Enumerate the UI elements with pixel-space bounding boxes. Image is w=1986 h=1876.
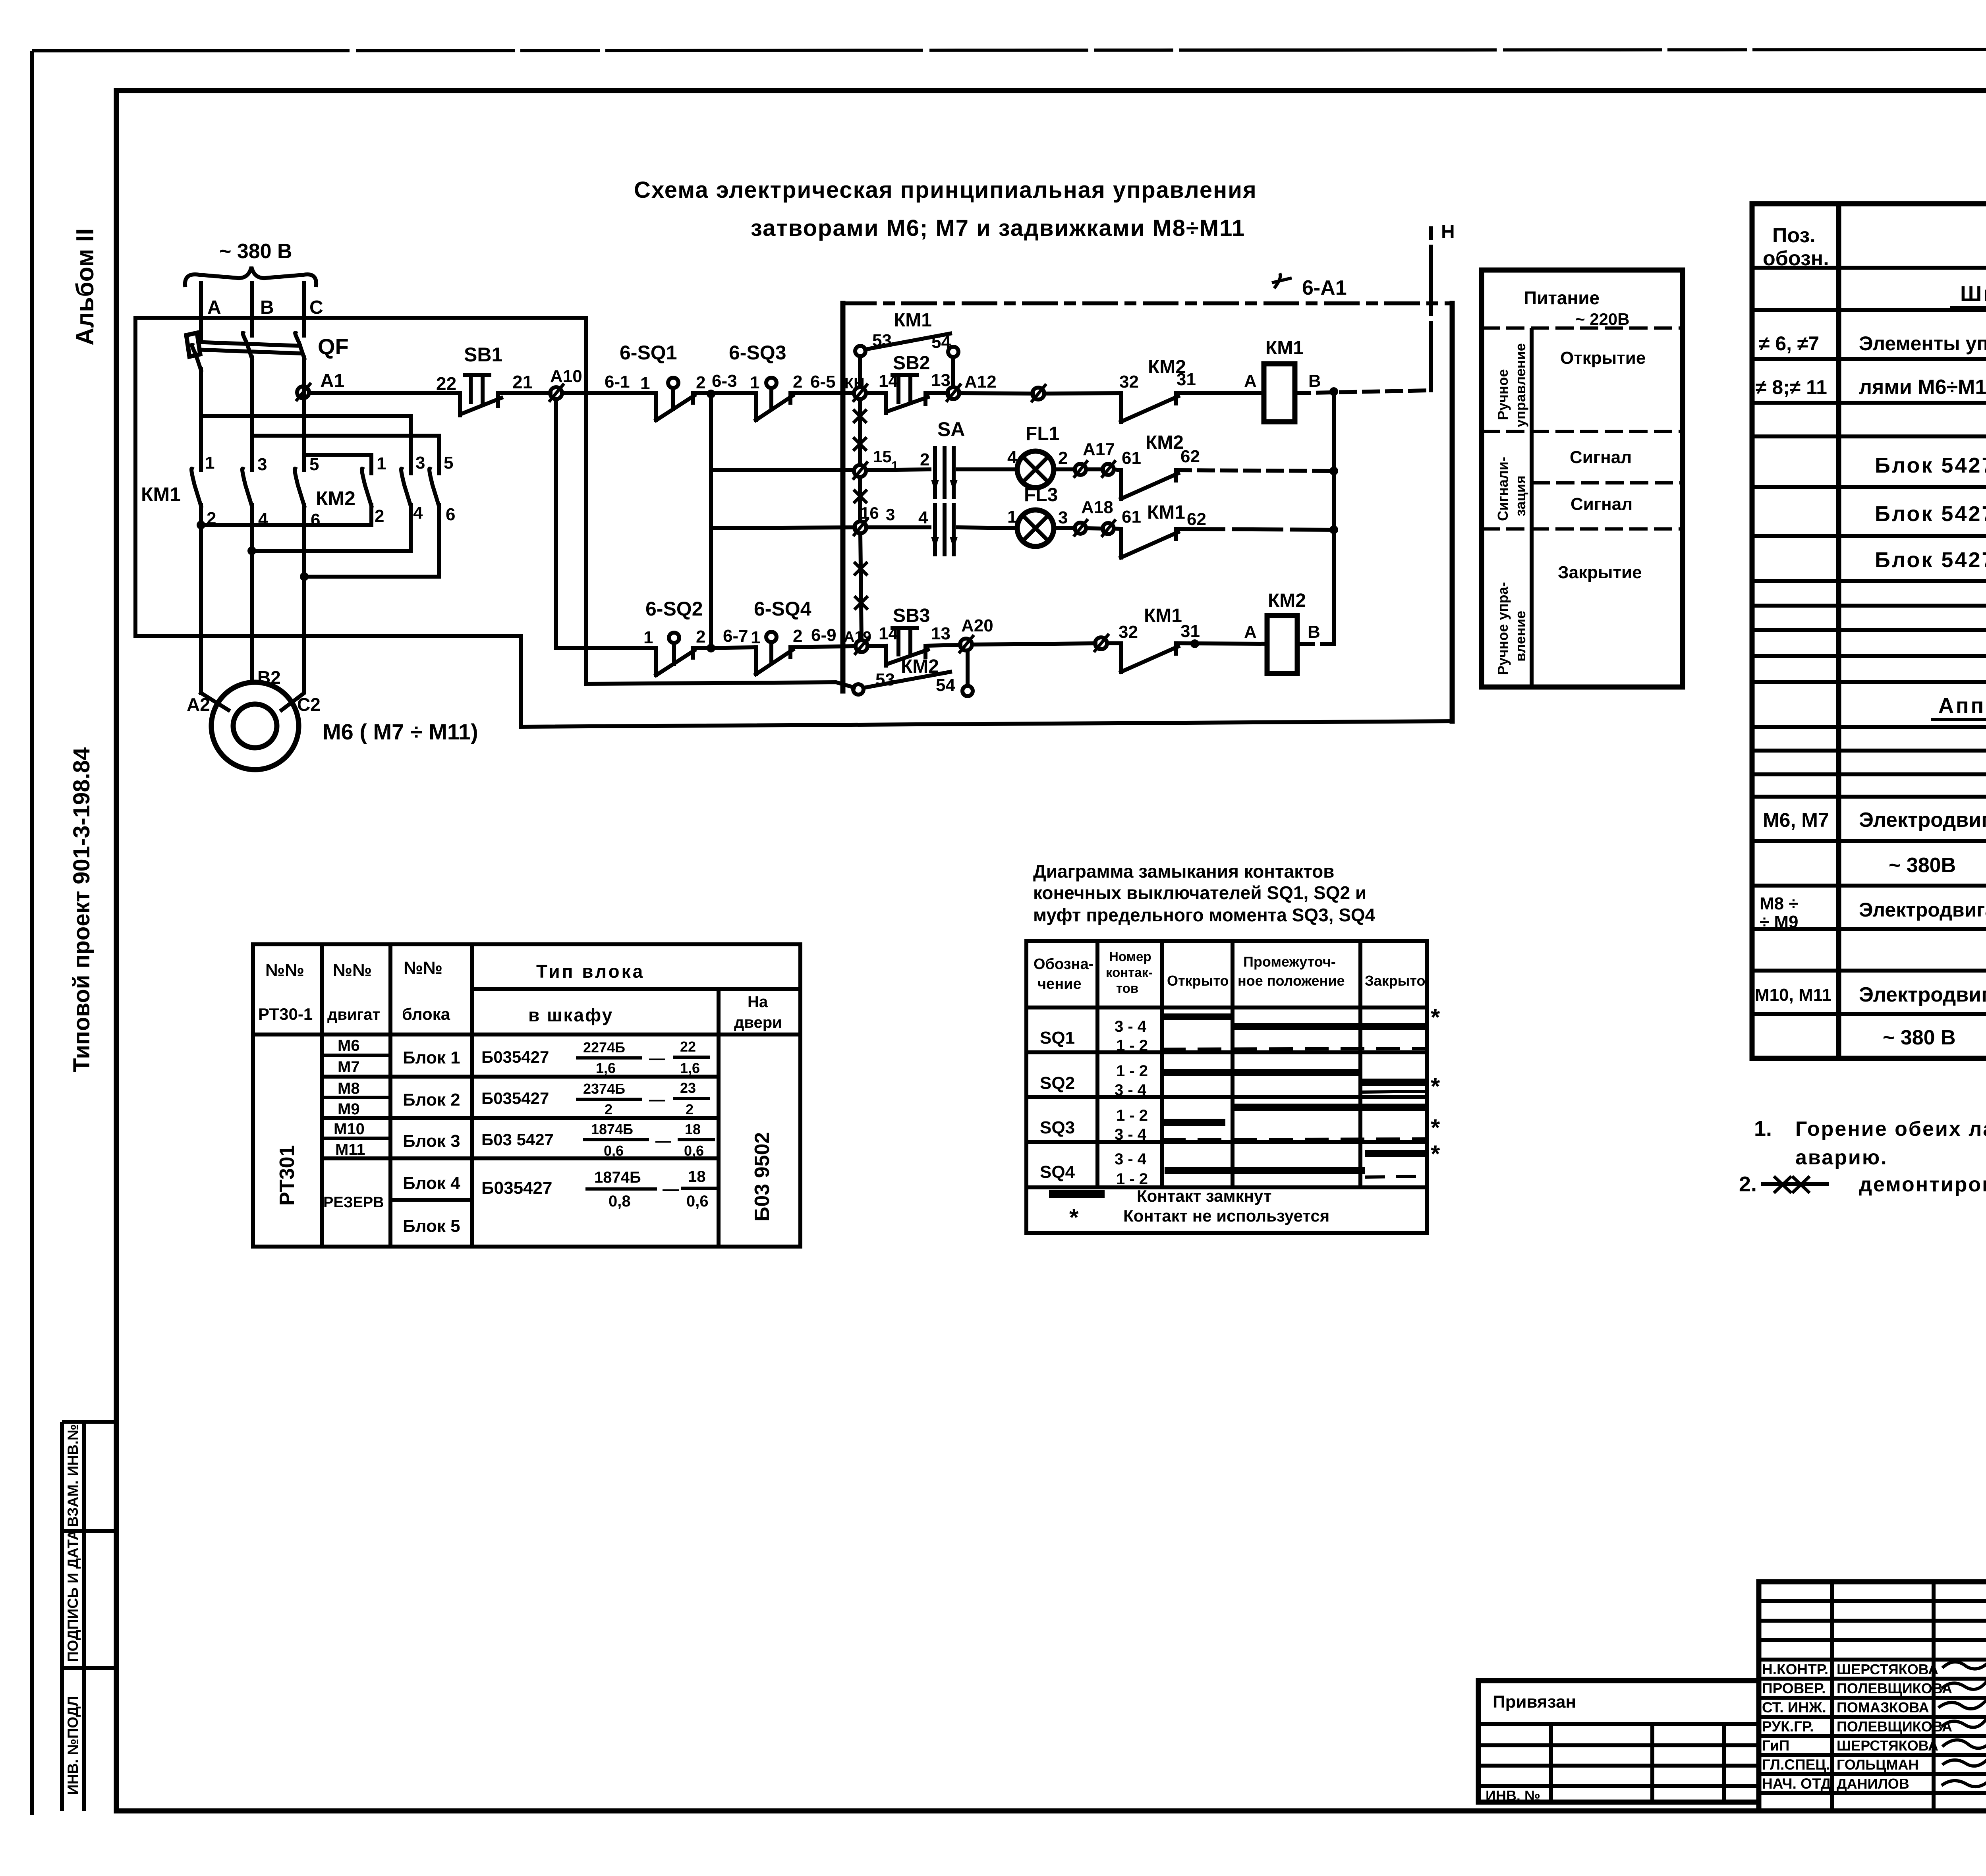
svg-text:М6, М7: М6, М7: [1763, 809, 1829, 831]
junction with branch wire: [707, 644, 715, 652]
left grid verticals: [1832, 1582, 1986, 1811]
svg-text:ШЕРСТЯКОВА: ШЕРСТЯКОВА: [1837, 1661, 1938, 1677]
svg-text:двигат: двигат: [327, 1006, 380, 1023]
svg-text:SQ4: SQ4: [1040, 1162, 1075, 1182]
svg-text:Электродвигатель АОЛС2-11-4: Электродвигатель АОЛС2-11-4 ~ 380В: [1859, 899, 1986, 921]
svg-text:ГОЛЬЦМАН: ГОЛЬЦМАН: [1837, 1756, 1918, 1773]
svg-text:Тип влока: Тип влока: [536, 961, 645, 982]
svg-text:23: 23: [680, 1080, 696, 1096]
svg-text:Сигнал: Сигнал: [1571, 494, 1632, 514]
svg-text:15: 15: [873, 447, 892, 466]
svg-text:Шкаф РТ30-81: Шкаф РТ30-81: [1960, 282, 1986, 306]
wire to SB3: [867, 646, 886, 646]
signatures: [1942, 1657, 1986, 1669]
svg-text:1: 1: [205, 453, 214, 473]
svg-text:1 - 2: 1 - 2: [1116, 1107, 1148, 1124]
svg-text:3: 3: [257, 455, 267, 474]
svg-text:А: А: [1244, 622, 1257, 642]
svg-text:Номер: Номер: [1109, 949, 1151, 964]
svg-text:6-7: 6-7: [723, 626, 748, 646]
svg-text:Блок 5427: Блок 5427: [1875, 454, 1986, 477]
crossover wire B to KM2-5: [252, 436, 439, 473]
svg-text:62: 62: [1187, 510, 1206, 529]
svg-text:~ 220В: ~ 220В: [1575, 310, 1630, 328]
svg-text:А: А: [1244, 371, 1257, 391]
svg-text:FL3: FL3: [1024, 484, 1058, 506]
limit switch SQ1: [656, 393, 694, 420]
svg-text:Б03 9502: Б03 9502: [751, 1132, 774, 1222]
svg-text:В: В: [1308, 622, 1320, 642]
svg-text:ДАНИЛОВ: ДАНИЛОВ: [1837, 1776, 1909, 1792]
svg-text:2: 2: [793, 372, 802, 392]
wire to coil KM2: [1176, 643, 1267, 644]
QF pole A: [192, 318, 201, 470]
svg-text:Блок 3: Блок 3: [403, 1131, 460, 1151]
svg-text:тов: тов: [1116, 981, 1138, 996]
phase C wire: [302, 283, 306, 336]
svg-text:обозн.: обозн.: [1763, 247, 1829, 270]
svg-text:÷ М9: ÷ М9: [1760, 912, 1799, 932]
svg-text:КМ2: КМ2: [316, 487, 355, 510]
row2 branch wire: [711, 527, 855, 528]
panel terminal row2: [854, 521, 866, 533]
svg-text:Блок 1: Блок 1: [403, 1048, 460, 1067]
svg-text:М6 ( М7 ÷ М11): М6 ( М7 ÷ М11): [323, 719, 478, 744]
wire to SA row1: [866, 469, 929, 470]
svg-text:0,6: 0,6: [604, 1143, 624, 1159]
wire to coil KM1: [1176, 391, 1264, 395]
rail wire to panel edge: [790, 391, 854, 395]
svg-text:*: *: [1431, 1004, 1440, 1031]
svg-text:ИНВ. №ПОДЛ: ИНВ. №ПОДЛ: [65, 1696, 81, 1795]
svg-text:~ 380 В: ~ 380 В: [219, 240, 292, 263]
phase A wire: [199, 283, 203, 336]
svg-text:1: 1: [643, 628, 653, 647]
svg-text:2: 2: [793, 626, 802, 646]
svg-text:2: 2: [1058, 448, 1068, 468]
svg-text:16: 16: [860, 504, 879, 522]
node A1: [297, 386, 309, 398]
svg-text:С: С: [309, 297, 323, 318]
svg-text:Блок 2: Блок 2: [403, 1090, 460, 1110]
svg-text:управление: управление: [1512, 343, 1528, 427]
svg-text:1,6: 1,6: [680, 1060, 700, 1076]
lower rail from A10: [556, 399, 656, 648]
svg-text:Поз.: Поз.: [1772, 224, 1816, 247]
svg-text:Блок 5427: Блок 5427: [1875, 548, 1986, 572]
coil KM2: [1267, 616, 1297, 674]
junction dot B: [247, 546, 256, 555]
svg-text:1 - 2: 1 - 2: [1116, 1037, 1148, 1054]
svg-text:чение: чение: [1037, 976, 1082, 992]
svg-text:двери: двери: [734, 1014, 782, 1031]
svg-text:6-SQ2: 6-SQ2: [645, 598, 703, 620]
rail wire A10 to SQ1: [562, 391, 656, 395]
rail wire to SB2: [866, 391, 886, 395]
wire coil KM2 to collector: [1297, 642, 1334, 646]
svg-text:Сигнал: Сигнал: [1570, 448, 1632, 467]
svg-text:В: В: [1308, 371, 1321, 391]
svg-text:ИНВ. №: ИНВ. №: [1486, 1787, 1540, 1804]
svg-text:М8: М8: [338, 1080, 360, 1097]
svg-text:*: *: [1431, 1141, 1440, 1167]
svg-text:6-SQ4: 6-SQ4: [754, 598, 811, 620]
wire SA to FL3: [958, 527, 1018, 528]
svg-text:4: 4: [918, 508, 928, 527]
phase B wire: [250, 283, 254, 336]
svg-text:ПОДПИСЬ И ДАТА: ПОДПИСЬ И ДАТА: [65, 1530, 81, 1662]
block table grid: [253, 944, 800, 1247]
svg-text:~ 380 В: ~ 380 В: [1883, 1026, 1956, 1049]
collector wire right: [1332, 392, 1336, 644]
svg-text:М7: М7: [338, 1058, 360, 1076]
svg-text:32: 32: [1119, 372, 1139, 392]
svg-text:—: —: [663, 1179, 679, 1198]
wire SA to FL1: [958, 467, 1018, 471]
svg-text:21: 21: [512, 372, 533, 392]
svg-text:1,6: 1,6: [596, 1060, 616, 1076]
svg-text:Промежуточ-: Промежуточ-: [1243, 953, 1336, 970]
svg-text:0,6: 0,6: [684, 1143, 704, 1159]
left margin strip cells: [62, 1422, 116, 1811]
svg-text:Горение обеих ламп сигнали: Горение обеих ламп сигнализирует: [1795, 1117, 1986, 1141]
rail wire to panel edge lower: [790, 646, 854, 647]
svg-text:6-SQ1: 6-SQ1: [620, 342, 677, 364]
panel terminal lower rail: [856, 640, 867, 652]
svg-text:13: 13: [931, 371, 950, 390]
rail wire to SQ4: [693, 647, 756, 648]
svg-text:1.: 1.: [1754, 1117, 1772, 1141]
enclosure 6-A1 top edge: [843, 301, 1452, 305]
svg-text:КМ1: КМ1: [141, 483, 181, 506]
svg-text:В2: В2: [257, 667, 281, 688]
svg-text:Схема электрическая принципи: Схема электрическая принципиальная управ…: [634, 177, 1257, 203]
privyazan table: [1478, 1681, 1759, 1802]
svg-text:А12: А12: [964, 372, 997, 392]
svg-text:31: 31: [1177, 370, 1196, 389]
wire KM2-2 to phase A: [201, 523, 371, 527]
svg-text:3 - 4: 3 - 4: [1115, 1081, 1147, 1099]
svg-text:FL1: FL1: [1026, 423, 1059, 444]
svg-text:зация: зация: [1512, 475, 1528, 516]
limit switch SQ3: [756, 393, 793, 420]
svg-text:2: 2: [686, 1101, 694, 1117]
svg-text:3 - 4: 3 - 4: [1115, 1018, 1147, 1035]
crossover wire C to KM2-1: [304, 455, 371, 473]
rail wire from A1 to SB1: [309, 391, 460, 395]
svg-text:61: 61: [1122, 448, 1141, 468]
svg-text:Открытие: Открытие: [1560, 348, 1646, 368]
svg-text:3: 3: [1058, 508, 1068, 527]
svg-text:≠ 8;≠ 11: ≠ 8;≠ 11: [1756, 376, 1827, 398]
svg-text:А1: А1: [320, 371, 344, 392]
svg-text:SB1: SB1: [464, 344, 502, 366]
svg-text:0,6: 0,6: [686, 1193, 709, 1210]
svg-text:1: 1: [377, 454, 386, 473]
motor lead A2: [201, 693, 228, 710]
svg-text:РЕЗЕРВ: РЕЗЕРВ: [323, 1194, 384, 1211]
svg-text:3 - 4: 3 - 4: [1115, 1150, 1147, 1168]
rail wire SB1 to A10: [498, 391, 551, 395]
right feed wire: [586, 318, 854, 687]
svg-text:Блок 4: Блок 4: [403, 1173, 460, 1193]
limit switch SQ4: [756, 647, 793, 674]
svg-text:6-9: 6-9: [811, 625, 837, 645]
svg-text:22: 22: [436, 373, 456, 394]
panel terminal row1: [854, 465, 866, 477]
junction dot C: [300, 572, 309, 581]
svg-text:Привязан: Привязан: [1493, 1692, 1576, 1712]
svg-text:Обозна-: Обозна-: [1034, 956, 1093, 973]
svg-text:Типовой проект 901-3-198.84: Типовой проект 901-3-198.84: [69, 747, 95, 1072]
svg-text:SA: SA: [937, 418, 965, 440]
svg-text:—: —: [655, 1132, 671, 1150]
svg-text:С2: С2: [297, 694, 321, 715]
motor M6: [211, 682, 299, 770]
svg-text:лями М6÷М11: лями М6÷М11: [1859, 376, 1986, 399]
svg-text:№№: №№: [333, 961, 372, 980]
svg-text:М8 ÷: М8 ÷: [1760, 894, 1799, 913]
diagram table grid: [1026, 941, 1427, 1233]
svg-text:Ручное упра-: Ручное упра-: [1495, 582, 1511, 675]
svg-text:А: А: [207, 297, 221, 318]
svg-text:6-5: 6-5: [810, 372, 836, 392]
svg-text:Элементы управления элек: Элементы управления электродвигате-: [1859, 332, 1986, 355]
svg-text:Аппаратура по месту.: Аппаратура по месту.: [1938, 694, 1986, 718]
svg-text:ПОЛЕВЩИКОВА: ПОЛЕВЩИКОВА: [1837, 1718, 1952, 1735]
specification table grid: [1752, 204, 1986, 1058]
svg-text:0,8: 0,8: [609, 1193, 631, 1210]
wire down to lower area: [521, 636, 1452, 727]
svg-text:31: 31: [1180, 621, 1200, 641]
left bypass wire: [135, 318, 521, 636]
svg-text:Электродвигатель ВАОА-071-4: Электродвигатель ВАОА-071-4: [1859, 809, 1986, 832]
svg-text:КМ2: КМ2: [1146, 432, 1184, 453]
enclosure 6-A1 left edge: [840, 303, 846, 691]
svg-text:Н.КОНТР.: Н.КОНТР.: [1762, 1661, 1828, 1677]
control top bus wire: [135, 316, 586, 320]
SQ2 bars: [1163, 1069, 1360, 1076]
wire to KM2 61 contact: [1114, 469, 1121, 470]
svg-text:2: 2: [696, 627, 705, 647]
svg-text:61: 61: [1122, 507, 1141, 527]
power legend box: [1482, 270, 1683, 687]
svg-text:18: 18: [688, 1168, 706, 1185]
svg-text:М10: М10: [334, 1120, 365, 1138]
svg-text:6-SQ3: 6-SQ3: [729, 342, 786, 364]
KM2 pole 5: [429, 469, 439, 577]
svg-text:3: 3: [415, 453, 425, 473]
svg-text:Контакт не используется: Контакт не используется: [1123, 1206, 1329, 1225]
wire KM2-6 to phase C: [304, 575, 439, 579]
crossover wire A to KM2-3: [201, 416, 411, 473]
svg-text:РТ301: РТ301: [276, 1145, 299, 1206]
svg-text:—: —: [649, 1050, 665, 1067]
svg-text:РТ30-1: РТ30-1: [258, 1005, 313, 1023]
wire FL3 to terminals: [1054, 526, 1075, 530]
svg-text:5: 5: [309, 455, 319, 474]
svg-text:А17: А17: [1083, 440, 1115, 459]
svg-text:КМ1: КМ1: [1144, 605, 1182, 626]
svg-text:*: *: [1069, 1204, 1079, 1231]
svg-text:62: 62: [1180, 447, 1200, 466]
svg-text:Питание: Питание: [1524, 288, 1600, 308]
svg-text:М9: М9: [338, 1100, 360, 1118]
svg-text:3 - 4: 3 - 4: [1115, 1126, 1147, 1143]
node A10: [550, 387, 562, 399]
svg-text:ПОЛЕВЩИКОВА: ПОЛЕВЩИКОВА: [1837, 1680, 1952, 1697]
KM2 pole 3: [401, 469, 411, 551]
jumper to dismantle with X marks: [860, 399, 862, 640]
KM1 pole B: [242, 469, 252, 681]
SQ4 bars: [1365, 1150, 1427, 1157]
svg-text:5: 5: [444, 453, 453, 473]
svg-text:В: В: [260, 297, 274, 318]
svg-text:Закрытие: Закрытие: [1558, 563, 1642, 582]
wire KM2-4 to phase B: [252, 549, 411, 553]
svg-text:Сигнали-: Сигнали-: [1495, 457, 1511, 521]
svg-text:А18: А18: [1081, 498, 1113, 517]
svg-text:2: 2: [375, 506, 384, 526]
svg-text:М6: М6: [338, 1037, 360, 1054]
svg-text:—: —: [649, 1091, 665, 1108]
motor lead C2: [282, 578, 304, 710]
svg-text:2: 2: [920, 450, 929, 469]
svg-text:6-3: 6-3: [712, 371, 737, 391]
svg-text:6: 6: [446, 505, 455, 524]
wire N riser: [1429, 228, 1433, 390]
svg-text:РУК.ГР.: РУК.ГР.: [1762, 1718, 1814, 1735]
svg-text:54: 54: [936, 676, 955, 695]
svg-text:1874Б: 1874Б: [591, 1121, 633, 1137]
svg-text:ГиП: ГиП: [1762, 1737, 1789, 1754]
svg-text:1 - 2: 1 - 2: [1116, 1170, 1148, 1188]
svg-text:*: *: [1431, 1114, 1440, 1141]
svg-text:SQ2: SQ2: [1040, 1073, 1075, 1093]
svg-text:2374Б: 2374Б: [583, 1081, 625, 1097]
svg-text:На: На: [748, 993, 768, 1011]
svg-text:2.: 2.: [1739, 1172, 1757, 1196]
svg-text:≠ 6, ≠7: ≠ 6, ≠7: [1759, 332, 1819, 355]
svg-text:ное положение: ное положение: [1238, 973, 1345, 989]
node A20: [925, 645, 960, 646]
row1 branch wire: [709, 394, 713, 648]
svg-text:Б035427: Б035427: [481, 1178, 552, 1198]
rail wire to SQ3: [693, 391, 756, 395]
rail junction dot: [707, 390, 715, 398]
svg-text:затворами М6; М7 и задвижк: затворами М6; М7 и задвижками М8÷М11: [751, 215, 1245, 241]
QF pole B: [243, 318, 252, 470]
svg-text:КМ1: КМ1: [894, 310, 932, 331]
svg-text:1: 1: [640, 374, 650, 393]
svg-text:в шкафу: в шкафу: [528, 1005, 613, 1025]
QF pole C: [295, 318, 304, 470]
svg-text:ПОМАЗКОВА: ПОМАЗКОВА: [1837, 1699, 1929, 1716]
svg-text:Альбом II: Альбом II: [71, 228, 99, 345]
svg-text:М11: М11: [335, 1141, 365, 1158]
enclosure 6-A1 right edge: [1450, 303, 1455, 721]
svg-text:СТ. ИНЖ.: СТ. ИНЖ.: [1762, 1699, 1826, 1716]
svg-text:2274Б: 2274Б: [583, 1039, 625, 1056]
svg-text:6-1: 6-1: [605, 372, 630, 392]
svg-text:ПРОВЕР.: ПРОВЕР.: [1762, 1680, 1826, 1697]
left grid horizontals: [1759, 1601, 1986, 1793]
svg-text:ГЛ.СПЕЦ.: ГЛ.СПЕЦ.: [1762, 1756, 1830, 1773]
legend bar sample: [1049, 1190, 1105, 1198]
KM1 pole A: [191, 469, 201, 693]
svg-text:демонтировать: демонтировать: [1859, 1173, 1986, 1196]
svg-text:КМ2: КМ2: [1268, 590, 1306, 611]
wire coil KM1 to N: [1295, 390, 1430, 393]
svg-text:№№: №№: [265, 961, 304, 980]
svg-text:контак-: контак-: [1106, 965, 1153, 980]
svg-text:Открыто: Открыто: [1167, 973, 1229, 989]
svg-text:1: 1: [751, 628, 760, 647]
wire row2 to collector: [1176, 529, 1334, 530]
rail wire to KM2 contact: [959, 393, 1033, 394]
svg-text:~ 380В: ~ 380В: [1889, 854, 1956, 877]
svg-text:аварию.: аварию.: [1795, 1146, 1888, 1169]
svg-text:QF: QF: [318, 334, 349, 359]
svg-text:А20: А20: [961, 616, 993, 635]
wire FL1 to terminals: [1054, 467, 1075, 471]
svg-text:SB3: SB3: [893, 605, 930, 626]
svg-text:Б035427: Б035427: [481, 1048, 549, 1066]
outer border top (dashed scan): [32, 49, 1986, 51]
svg-text:Ручное: Ручное: [1495, 369, 1511, 420]
svg-text:1: 1: [750, 373, 759, 392]
KM1 pole C: [295, 469, 304, 578]
svg-text:конечных выключателей SQ1,: конечных выключателей SQ1, SQ2 и: [1033, 882, 1366, 903]
svg-text:4: 4: [413, 503, 423, 523]
svg-text:Б03 5427: Б03 5427: [481, 1130, 554, 1149]
svg-text:КМ1: КМ1: [1265, 338, 1304, 359]
dashed wire row1 to collector: [1176, 470, 1334, 471]
brace: [185, 267, 316, 285]
svg-text:Контакт замкнут: Контакт замкнут: [1137, 1187, 1271, 1205]
svg-text:блока: блока: [402, 1005, 450, 1023]
svg-text:1 - 2: 1 - 2: [1116, 1062, 1148, 1080]
svg-text:НАЧ. ОТД: НАЧ. ОТД: [1762, 1776, 1831, 1792]
junction dot A: [197, 521, 205, 529]
svg-text:Диаграмма замыкания контак: Диаграмма замыкания контактов: [1033, 861, 1334, 882]
circuit breaker QF tie bar: [193, 342, 302, 353]
svg-text:муфт предельного момента SQ: муфт предельного момента SQ3, SQ4: [1033, 905, 1376, 925]
KM2 pole 1: [362, 469, 371, 525]
svg-text:1874Б: 1874Б: [594, 1169, 641, 1186]
svg-text:Электродвигатель АОЛ-11-2Ф3: Электродвигатель АОЛ-11-2Ф3: [1859, 983, 1986, 1006]
svg-text:22: 22: [680, 1038, 696, 1055]
svg-text:Блок 5: Блок 5: [403, 1216, 460, 1236]
svg-text:6-А1: 6-А1: [1302, 276, 1347, 299]
outer border left: [30, 51, 34, 1815]
svg-text:SB2: SB2: [893, 353, 930, 374]
SQ1 bars: [1163, 1013, 1231, 1020]
svg-text:*: *: [1431, 1073, 1440, 1100]
svg-text:А2: А2: [187, 694, 210, 715]
svg-text:3: 3: [886, 505, 895, 524]
svg-text:ШЕРСТЯКОВА: ШЕРСТЯКОВА: [1837, 1737, 1938, 1754]
QF flag: [186, 333, 200, 357]
svg-text:13: 13: [931, 624, 950, 643]
svg-text:А10: А10: [550, 367, 582, 386]
wire to SA row2: [866, 525, 929, 529]
svg-text:2: 2: [605, 1101, 612, 1117]
rail wire A20 to KM1 contact: [972, 643, 1095, 645]
svg-text:Закрыто: Закрыто: [1365, 973, 1425, 989]
coil KM1: [1264, 364, 1295, 422]
svg-text:18: 18: [685, 1121, 701, 1137]
